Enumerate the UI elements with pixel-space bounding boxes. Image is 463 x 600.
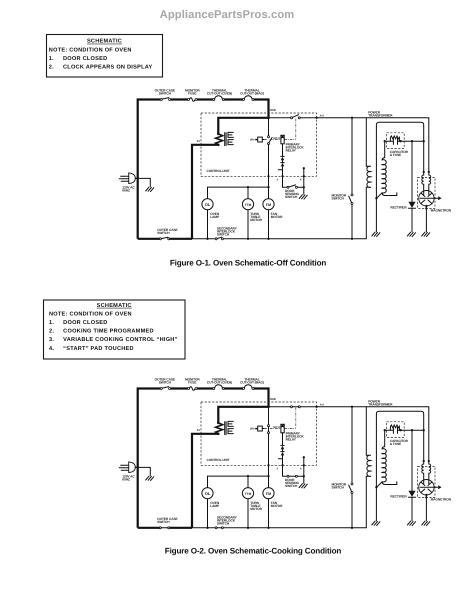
svg-text:A-2: A-2	[320, 115, 325, 118]
wire: lamp feed vertical (O-2)	[268, 434, 270, 528]
outer case switch (bottom wire, O-2)	[159, 527, 161, 529]
relay coil RY-2 (O-1)	[258, 137, 263, 142]
wire: main feed line to transformer/magnetron (O-1)	[269, 118, 429, 172]
svg-text:SCHEMATIC: SCHEMATIC	[87, 39, 122, 45]
capacitor C1 with bleed resistor (O-2)	[387, 422, 405, 438]
svg-text:A: A	[300, 468, 302, 471]
svg-text:OL: OL	[205, 202, 211, 207]
relay contact RY-2 (O-2)	[268, 407, 270, 425]
wire: thick transformer return to bottom (O-2)	[138, 434, 219, 528]
svg-text:TTM: TTM	[245, 492, 252, 496]
oven lamp OL (O-2)	[202, 488, 213, 499]
node door loop right O-2	[303, 475, 305, 477]
node TTM tap O-1	[247, 186, 249, 188]
svg-text:4. “START” PAD TOUCHED: 4. “START” PAD TOUCHED	[49, 346, 134, 352]
secondary interlock switch (O-1)	[215, 238, 217, 240]
node magnetron cathode top O-2	[425, 494, 427, 496]
ground magnetron ground O-2	[422, 521, 430, 526]
wire: OL branch (O-1)	[207, 187, 209, 239]
control unit box (O-2)	[201, 402, 317, 465]
svg-text:1. DOOR CLOSED: 1. DOOR CLOSED	[49, 320, 108, 326]
node terminal A O-2	[303, 464, 305, 466]
svg-text:FM: FM	[266, 492, 271, 496]
wire: plug ground lead (O-2)	[135, 467, 150, 475]
note box figure O-2	[44, 300, 186, 359]
node TTM bottom O-1	[247, 238, 249, 240]
ground rectifier ground O-2	[407, 521, 415, 526]
relay coil RY-2 (O-2)	[258, 426, 263, 431]
wire: main feed line to transformer/magnetron (O-2)	[269, 407, 429, 461]
power transformer primary winding (O-1)	[366, 118, 371, 239]
node HV line node O-2	[423, 429, 425, 431]
svg-text:OL: OL	[205, 491, 211, 496]
thermal cut-out oven (O-2)	[213, 388, 215, 390]
node choke L node O-2	[423, 460, 425, 462]
magnetron dashed enclosure (O-2)	[418, 466, 435, 497]
node TTM tap O-2	[247, 475, 249, 477]
diodes D1 D2 (O-1)	[281, 144, 284, 177]
node cap right O-1	[399, 140, 401, 142]
ground rectifier ground O-1	[407, 232, 415, 237]
control unit box (O-1)	[201, 113, 317, 176]
node lamp feed exits control unit O-2	[267, 464, 269, 466]
outer case switch (bottom wire, O-1)	[159, 238, 161, 240]
node cap right O-2	[399, 429, 401, 431]
rectifier diode (O-1)	[408, 141, 415, 232]
svg-text:3. VARIABLE COOKING CONTRO: 3. VARIABLE COOKING CONTROL “HIGH”	[49, 337, 178, 343]
wire: plug ground lead (O-1)	[135, 178, 150, 186]
svg-text:(RY-2): (RY-2)	[250, 428, 257, 431]
node FM tap O-1	[267, 186, 269, 188]
door sensing switch (O-2)	[287, 475, 289, 477]
svg-text:DSB: DSB	[270, 398, 276, 401]
wire: OL branch (O-2)	[207, 476, 209, 528]
node secondary ground node O-1	[375, 197, 377, 199]
node monitor bottom O-1	[351, 238, 353, 240]
svg-text:OVENLAMP: OVENLAMP	[210, 501, 220, 508]
node choke R node O-2	[428, 460, 430, 462]
node door loop right O-1	[303, 186, 305, 188]
thermal cut-out oven (O-1)	[213, 99, 215, 101]
magnetron filament chokes (O-1)	[422, 172, 424, 191]
node FM tap O-2	[267, 475, 269, 477]
svg-text:X1: X1	[197, 139, 201, 143]
node magnetron cathode O-2	[425, 496, 427, 498]
power transformer primary winding (O-2)	[366, 407, 371, 528]
node door loop top O-1	[303, 167, 305, 169]
monitor switch (O-1)	[351, 194, 353, 196]
node rectifier tap O-2	[411, 429, 413, 431]
node terminal A O-1	[303, 175, 305, 177]
node monitor tap O-2	[351, 406, 353, 408]
node cap left O-2	[384, 429, 386, 431]
power transformer HV secondary winding (O-1)	[382, 141, 386, 193]
secondary interlock switch (O-2)	[215, 527, 217, 529]
node terminal 4 O-2	[281, 464, 283, 466]
node HV line node O-1	[423, 140, 425, 142]
wire: TTM branch (O-1)	[247, 187, 249, 239]
svg-text:(RY-1): (RY-1)	[273, 137, 280, 140]
svg-text:A-2: A-2	[320, 404, 325, 407]
node OL bottom O-1	[206, 238, 208, 240]
node choke R node O-1	[428, 171, 430, 173]
monitor switch (O-2)	[351, 483, 353, 485]
magnetron tube (O-2)	[419, 480, 434, 495]
node monitor tap O-1	[351, 117, 353, 119]
svg-text:NOTE: CONDITION OF OVEN: NOTE: CONDITION OF OVEN	[49, 47, 132, 53]
svg-text:RECTIFIER: RECTIFIER	[390, 206, 407, 210]
svg-text:(RY-1): (RY-1)	[273, 426, 280, 429]
node feed corner O-2	[267, 406, 269, 408]
wire: lamp feed vertical (O-1)	[268, 145, 270, 239]
svg-text:DSB: DSB	[270, 109, 276, 112]
node rectifier tap O-1	[411, 140, 413, 142]
fan motor FM (O-2)	[263, 488, 274, 499]
ground door sensing ground O-1	[299, 195, 307, 200]
transformer T1 in control unit (O-2)	[216, 423, 223, 434]
node FM bottom O-1	[267, 238, 269, 240]
relay coil RY-1 (O-2)	[281, 424, 284, 433]
wire: HV secondary ground loop (O-1)	[376, 122, 423, 198]
wire: bottom return line (O-1)	[192, 238, 366, 240]
magnetron filament chokes (O-2)	[422, 461, 424, 480]
capacitor C1 with bleed resistor (O-1)	[387, 133, 405, 149]
node magnetron cathode O-1	[425, 207, 427, 209]
door sensing switch (O-1)	[287, 186, 289, 188]
node TTM bottom O-2	[247, 527, 249, 529]
svg-text:SCHEMATIC: SCHEMATIC	[97, 303, 132, 309]
rectifier diode (O-2)	[408, 430, 415, 521]
turntable motor TTM (O-1)	[242, 199, 253, 210]
ground plug ground O-2	[146, 476, 154, 481]
power transformer HV secondary winding (O-2)	[382, 430, 386, 482]
wire: thick transformer return to bottom (O-1)	[138, 145, 219, 239]
ground plug ground O-1	[146, 187, 154, 192]
svg-text:X1: X1	[197, 428, 201, 432]
ground transformer ground O-2	[372, 521, 380, 526]
svg-text:MAGNETRON: MAGNETRON	[431, 497, 452, 501]
note box figure O-1	[47, 35, 163, 78]
svg-text:AppliancePartsPros.com: AppliancePartsPros.com	[160, 9, 295, 21]
node cap left O-1	[384, 140, 386, 142]
node A-2 exit O-1	[315, 117, 317, 119]
fan motor FM (O-1)	[263, 199, 274, 210]
wire: HV secondary ground loop (O-2)	[376, 411, 423, 487]
wire: door sensing loop (O-2)	[283, 457, 304, 483]
oven lamp OL (O-1)	[202, 199, 213, 210]
svg-text:2. COOKING TIME PROGRAMMED: 2. COOKING TIME PROGRAMMED	[49, 329, 154, 335]
ground door sensing ground O-2	[299, 484, 307, 489]
node choke L node O-1	[423, 171, 425, 173]
svg-text:MAGNETRON: MAGNETRON	[431, 208, 452, 212]
node magnetron cathode top O-1	[425, 205, 427, 207]
ground magnetron ground O-1	[422, 232, 430, 237]
node terminal 4 O-1	[281, 175, 283, 177]
svg-text:2. CLOCK APPEARS ON DISPLA: 2. CLOCK APPEARS ON DISPLAY	[49, 65, 153, 71]
svg-text:CONTROL UNIT: CONTROL UNIT	[207, 169, 230, 173]
node monitor bottom O-2	[351, 527, 353, 529]
svg-text:Figure O-2. Oven Schematic-Coo: Figure O-2. Oven Schematic-Cooking Condi…	[165, 547, 342, 556]
outer case switch (top wire, O-1)	[160, 99, 162, 101]
AC plug 120V (O-2)	[129, 462, 136, 473]
wire: lamp parallel rail (O-2)	[208, 475, 269, 477]
wire: monitor switch branch (O-2)	[351, 407, 353, 528]
node feed corner O-1	[267, 117, 269, 119]
monitor fuse (O-2)	[188, 388, 190, 390]
svg-text:1. DOOR CLOSED: 1. DOOR CLOSED	[49, 56, 108, 62]
svg-text:A: A	[300, 179, 302, 182]
wire: TTM branch (O-2)	[247, 476, 249, 528]
node secondary ground node O-2	[375, 486, 377, 488]
relay contact RY-1 on feed (O-1)	[291, 117, 293, 119]
node FM bottom O-2	[267, 527, 269, 529]
wire: left supply vertical + top line (O-2)	[138, 389, 269, 528]
ground transformer ground O-1	[372, 232, 380, 237]
svg-text:(RY-2): (RY-2)	[250, 139, 257, 142]
svg-text:RECTIFIER: RECTIFIER	[390, 495, 407, 499]
wire: bottom return line (O-2)	[192, 527, 366, 529]
svg-text:OVENLAMP: OVENLAMP	[210, 212, 220, 219]
magnetron tube (O-1)	[419, 191, 434, 206]
turntable motor TTM (O-2)	[242, 488, 253, 499]
magnetron dashed enclosure (O-1)	[418, 177, 435, 208]
node lamp feed exits control unit O-1	[267, 175, 269, 177]
monitor fuse (O-1)	[188, 99, 190, 101]
relay contact RY-2 (O-1)	[268, 118, 270, 136]
node A-2 exit O-2	[315, 406, 317, 408]
relay coil RY-1 (O-1)	[281, 135, 284, 144]
diodes D1 D2 (O-2)	[281, 433, 284, 466]
node door loop top O-2	[303, 456, 305, 458]
wire: door sensing loop (O-1)	[283, 168, 304, 194]
svg-text:FM: FM	[266, 203, 271, 207]
thermal cut-out mag (O-2)	[243, 388, 245, 390]
wire: lamp parallel rail (O-1)	[208, 186, 269, 188]
node OL bottom O-2	[206, 527, 208, 529]
relay contact RY-1 on feed (O-2)	[291, 406, 293, 408]
thermal cut-out mag (O-1)	[243, 99, 245, 101]
AC plug 120V (O-1)	[129, 173, 136, 184]
wire: monitor switch branch (O-1)	[351, 118, 353, 239]
svg-text:TTM: TTM	[245, 203, 252, 207]
outer case switch (top wire, O-2)	[160, 388, 162, 390]
svg-text:NOTE: CONDITION OF OVEN: NOTE: CONDITION OF OVEN	[49, 311, 132, 317]
svg-text:Figure O-1. Oven Schematic-Off: Figure O-1. Oven Schematic-Off Condition	[170, 259, 327, 268]
wire: left supply vertical + top line (O-1)	[138, 100, 269, 239]
svg-text:CONTROL UNIT: CONTROL UNIT	[207, 458, 230, 462]
transformer T1 in control unit (O-1)	[216, 134, 223, 145]
